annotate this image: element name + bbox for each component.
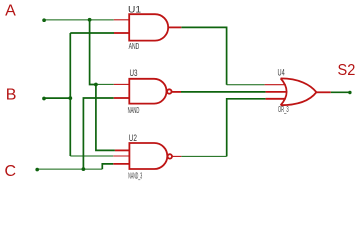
svg-text:A: A xyxy=(5,2,16,19)
wire B vertical xyxy=(69,33,71,156)
junction C xyxy=(82,167,86,171)
junction A2 xyxy=(94,83,98,87)
node B terminal dot xyxy=(42,97,46,101)
svg-text:NAND_3: NAND_3 xyxy=(128,171,142,180)
wire U2 output horizontal xyxy=(181,155,226,157)
wire A vertical down to U2 level xyxy=(96,85,115,151)
wire A vertical down to U3 level xyxy=(90,20,96,85)
svg-text:U3: U3 xyxy=(130,68,138,79)
junction A xyxy=(88,18,92,22)
svg-text:AND: AND xyxy=(129,42,140,51)
wire B to U1 bottom pin xyxy=(70,32,114,34)
wire C jog to U2 bottom pin xyxy=(102,164,113,169)
svg-text:U2: U2 xyxy=(129,133,137,144)
junction B xyxy=(68,96,72,100)
wire B to U2 middle pin xyxy=(70,155,113,157)
wire B horizontal xyxy=(44,97,70,99)
wire U1 output down to U4 xyxy=(181,27,226,84)
svg-text:U4: U4 xyxy=(278,68,285,79)
wire U1 output into U4 top pin xyxy=(227,84,265,86)
nand-gate U3 xyxy=(114,79,181,104)
svg-text:S2: S2 xyxy=(338,62,356,79)
and-gate U1 xyxy=(114,14,182,40)
wire A to U3 top pin xyxy=(96,83,114,85)
wire C horizontal xyxy=(37,168,102,170)
svg-text:U1: U1 xyxy=(128,4,141,15)
wire C vertical up to U3 bottom pin xyxy=(83,98,113,169)
nand-gate U2 xyxy=(113,143,181,169)
svg-text:B: B xyxy=(6,87,17,104)
wire U3 output to U4 middle pin xyxy=(181,91,266,93)
svg-text:OR_3: OR_3 xyxy=(278,105,289,114)
svg-text:NAND: NAND xyxy=(128,106,140,115)
node C terminal dot xyxy=(35,168,39,172)
wire A horizontal to U1 xyxy=(44,19,114,21)
node A terminal dot xyxy=(42,18,46,22)
or-gate U4 xyxy=(265,78,331,105)
svg-text:C: C xyxy=(5,163,17,180)
wire S2 output xyxy=(331,91,350,93)
wire U2 output up to U4 bottom pin xyxy=(227,99,266,157)
node S2 terminal dot xyxy=(348,91,351,94)
